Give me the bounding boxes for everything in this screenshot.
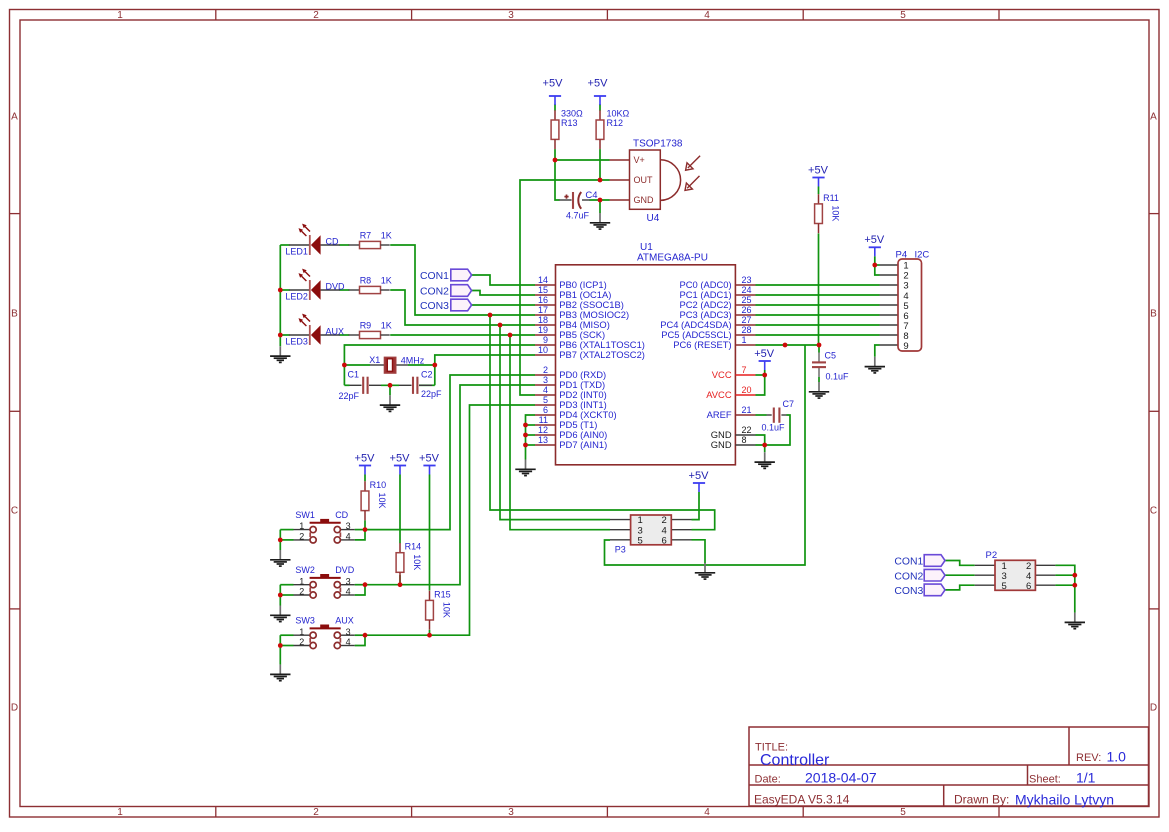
svg-text:2: 2	[299, 637, 304, 647]
svg-text:B: B	[11, 309, 18, 320]
U1 pin 7 VCC	[712, 365, 756, 380]
wire GND pin22	[756, 435, 765, 445]
wire P3 pin6 to ground	[692, 540, 706, 563]
svg-text:2: 2	[543, 365, 548, 375]
svg-text:PB7 (XTAL2TOSC2): PB7 (XTAL2TOSC2)	[559, 349, 645, 360]
svg-text:C: C	[1150, 506, 1157, 517]
wire SW3 pin4 loop	[355, 635, 365, 645]
svg-text:21: 21	[742, 405, 752, 415]
svg-text:CON2: CON2	[420, 287, 449, 298]
LED labels	[285, 236, 345, 346]
crystal pins	[370, 364, 408, 366]
svg-text:2: 2	[313, 10, 319, 21]
wire net DVD: R8 to PB4	[390, 290, 535, 325]
wire V+ node down to C4	[555, 160, 560, 200]
wire SW3 pin2 tie	[280, 645, 293, 647]
frame row ticks left/right	[10, 214, 1160, 609]
svg-text:U1: U1	[640, 242, 653, 253]
U1 pin 9 PB6	[535, 335, 645, 350]
svg-text:4MHz: 4MHz	[401, 356, 425, 366]
svg-text:3: 3	[508, 807, 514, 818]
wire PC2 to P4 pin5	[756, 304, 880, 306]
svg-text:DVD: DVD	[326, 281, 346, 291]
wire P3 pin2 to +5V	[692, 492, 700, 520]
wire R12 to OUT node	[599, 149, 601, 180]
crystal X1 4MHz	[369, 355, 424, 373]
svg-text:2018-04-07: 2018-04-07	[805, 770, 877, 786]
resistor R14	[396, 543, 404, 582]
wire P2 pin4	[1055, 574, 1074, 576]
wire net SW1 to PD0	[365, 375, 535, 530]
wire LED2 anode to R8	[340, 289, 350, 291]
wire SW1 left tie	[280, 529, 293, 531]
ground PD4-PD7	[515, 460, 535, 476]
labels R12	[607, 109, 630, 128]
svg-text:+5V: +5V	[390, 452, 411, 464]
svg-text:8: 8	[742, 435, 747, 445]
wire LED2 cathode	[280, 289, 289, 291]
svg-text:OUT: OUT	[634, 175, 654, 185]
wire LED3 cathode	[280, 334, 289, 336]
svg-text:6: 6	[1026, 581, 1031, 592]
resistor R11	[815, 194, 823, 233]
svg-text:R13: R13	[561, 118, 578, 128]
U1 pin 5 PD3	[535, 395, 607, 410]
wire LED1 cathode	[280, 244, 289, 246]
wire GND node to ground	[599, 200, 601, 213]
C4 pins	[559, 199, 590, 201]
svg-text:0.1uF: 0.1uF	[762, 423, 786, 433]
wire SW1 pin2 tie	[280, 539, 293, 541]
svg-text:23: 23	[742, 275, 752, 285]
svg-text:Sheet:: Sheet:	[1029, 773, 1061, 785]
svg-text:CON1: CON1	[894, 557, 923, 568]
svg-text:1K: 1K	[381, 275, 392, 285]
frame row letters	[11, 112, 1157, 714]
svg-text:15: 15	[538, 285, 548, 295]
svg-text:C4: C4	[585, 190, 597, 201]
resistor R10	[361, 481, 369, 520]
wire PC1 to P4 pin4	[756, 294, 880, 296]
svg-text:R8: R8	[360, 275, 372, 285]
wire CON1 flag to PB0	[472, 275, 535, 285]
wire +5V rail VCC/AVCC	[756, 370, 765, 395]
svg-text:5: 5	[900, 807, 906, 818]
+5V power symbol for P4	[864, 234, 885, 256]
wire PD5 tie	[526, 424, 536, 426]
capacitor C2 22pF	[413, 377, 417, 394]
svg-text:LED3: LED3	[285, 337, 308, 347]
ground P4 pin9	[865, 357, 885, 373]
wire crystal left node	[344, 364, 370, 366]
wire R10 bottom	[364, 520, 366, 529]
wire P2 pin6	[1055, 584, 1074, 586]
svg-text:2: 2	[299, 587, 304, 597]
svg-text:ATMEGA8A-PU: ATMEGA8A-PU	[637, 253, 708, 264]
ground crystal caps	[380, 395, 400, 411]
capacitor C1 22pF	[363, 377, 367, 394]
svg-text:11: 11	[539, 415, 548, 425]
svg-text:28: 28	[742, 325, 752, 335]
svg-text:+5V: +5V	[543, 78, 564, 90]
C1 pins	[350, 384, 382, 386]
wire net CD: R7 to PB3	[390, 245, 535, 315]
wire C1 to C2 mid	[381, 384, 399, 386]
wire crystal right node	[408, 364, 435, 366]
P2 pin stubs	[975, 565, 1056, 585]
svg-text:DVD: DVD	[335, 565, 355, 575]
wire SW2 left tie	[280, 584, 293, 586]
svg-text:14: 14	[538, 275, 548, 285]
wire R11 to RESET node	[818, 233, 820, 345]
svg-text:CON3: CON3	[894, 586, 923, 597]
wire P4 pin1	[875, 264, 880, 266]
resistor R12	[596, 110, 604, 149]
svg-text:TSOP1738: TSOP1738	[633, 138, 683, 149]
svg-text:26: 26	[742, 305, 752, 315]
svg-text:18: 18	[538, 315, 548, 325]
ground C5	[809, 382, 829, 398]
wire crystal mid to ground	[389, 385, 391, 395]
labels R15	[434, 589, 452, 618]
U1 pin 12 PD6	[535, 425, 607, 440]
svg-text:AVCC: AVCC	[706, 389, 732, 400]
svg-text:3: 3	[346, 627, 351, 637]
U1 pin 18 PB4	[535, 315, 610, 330]
svg-text:1K: 1K	[381, 230, 392, 240]
svg-text:X1: X1	[369, 355, 380, 365]
svg-text:4: 4	[346, 532, 351, 542]
svg-text:3: 3	[346, 521, 351, 531]
U1 pin 8 GND	[711, 435, 756, 450]
wire net SW3 to PD3	[365, 405, 535, 635]
svg-text:5: 5	[1002, 581, 1007, 592]
wire SW1 left rail	[279, 530, 281, 550]
U1 pin 25 PC2	[680, 295, 756, 310]
IR receiver U4 TSOP1738	[610, 138, 683, 223]
svg-text:22pF: 22pF	[339, 391, 360, 401]
P3 pin stubs	[610, 520, 692, 540]
wire CON2 flag to PB1	[472, 291, 535, 296]
wire net RESET	[756, 344, 820, 346]
frame column ticks top/bottom	[216, 10, 999, 818]
U1 pin 24 PC1	[680, 285, 756, 300]
U1 pin 26 PC3	[680, 305, 756, 320]
svg-text:REV:: REV:	[1076, 752, 1101, 764]
U1 pin 4 PD2	[535, 385, 607, 400]
wire PC3 to P4 pin6	[756, 314, 880, 316]
svg-text:C5: C5	[825, 351, 837, 361]
svg-text:1: 1	[299, 576, 304, 586]
svg-text:B: B	[1150, 309, 1157, 320]
svg-text:10K: 10K	[412, 554, 422, 570]
svg-text:Drawn By:: Drawn By:	[954, 793, 1009, 807]
wire LED1 anode to R7	[340, 244, 350, 246]
U1 pin 21 AREF	[707, 405, 756, 420]
U1 pin 11 PD5	[535, 415, 597, 430]
capacitor C5 0.1uF	[812, 351, 849, 382]
wire AREF to C7	[756, 414, 767, 416]
wire PD7 tie	[526, 444, 536, 446]
svg-text:4: 4	[704, 10, 710, 21]
svg-text:D: D	[11, 703, 18, 714]
U1 pin 16 PB2	[535, 295, 624, 310]
ground P2	[1065, 613, 1085, 629]
capacitor C4 4.7uF polarized	[564, 190, 597, 221]
svg-text:+5V: +5V	[419, 452, 440, 464]
svg-text:R9: R9	[360, 320, 372, 330]
svg-text:3: 3	[508, 10, 514, 21]
P4 pin stubs	[880, 265, 899, 345]
wire P2 pin2/4/6 ground rail	[1055, 565, 1074, 612]
wire RESET to P3 pin5 riser	[605, 345, 806, 565]
svg-text:PD7 (AIN1): PD7 (AIN1)	[559, 439, 607, 450]
svg-text:1K: 1K	[381, 320, 392, 330]
net flag CON2 at U1	[420, 285, 472, 298]
svg-text:4: 4	[543, 385, 548, 395]
svg-text:5: 5	[900, 10, 906, 21]
svg-text:CON2: CON2	[894, 571, 923, 582]
svg-text:20: 20	[742, 385, 752, 395]
svg-text:25: 25	[742, 295, 752, 305]
IC U1 ATMEGA8A-PU body	[556, 265, 736, 465]
net flag CON3 at U1	[420, 299, 472, 312]
wire SW3 pin3	[355, 634, 365, 636]
svg-text:AREF: AREF	[707, 409, 732, 420]
wire SW1 pin4 loop	[355, 530, 365, 540]
svg-text:Date:: Date:	[755, 773, 781, 785]
svg-text:SW2: SW2	[295, 565, 315, 575]
wire +5V to R11	[818, 187, 820, 195]
labels R10	[370, 480, 388, 509]
+5V power symbol for R14	[390, 452, 411, 474]
wire R13 to V+ node	[554, 149, 556, 160]
connector P3 header	[615, 515, 672, 554]
svg-text:5: 5	[638, 535, 643, 546]
wire +5V to R12	[599, 104, 601, 111]
connector P4 I2C header	[896, 249, 930, 352]
svg-text:C7: C7	[783, 399, 795, 409]
ground SW1	[270, 550, 290, 566]
U1 pin 23 PC0	[680, 275, 756, 290]
svg-text:Controller: Controller	[760, 752, 830, 769]
svg-text:16: 16	[538, 295, 548, 305]
svg-text:P2: P2	[986, 550, 998, 561]
svg-text:3: 3	[346, 576, 351, 586]
svg-text:5: 5	[543, 395, 548, 405]
U1 pin 6 PD4	[535, 405, 617, 420]
U1 pin 19 PB5	[535, 325, 605, 340]
svg-text:LED2: LED2	[285, 292, 308, 302]
wire CON3 to P2 pin5	[945, 585, 975, 590]
wire P4 pin9 to ground	[875, 345, 880, 357]
wire C1 left	[344, 384, 349, 386]
svg-text:6: 6	[662, 535, 667, 546]
svg-text:2: 2	[299, 532, 304, 542]
wire SW1 pin3	[355, 529, 365, 531]
switch SW1 (CD)	[294, 510, 355, 543]
title block	[749, 727, 1149, 807]
ground P3 pin6	[695, 563, 715, 579]
svg-text:1: 1	[117, 807, 123, 818]
wire PD4 tie	[526, 415, 536, 460]
C2 pins	[399, 384, 432, 386]
U1 pin 22 GND	[711, 425, 756, 440]
labels R13	[561, 109, 583, 128]
svg-text:CON1: CON1	[420, 271, 449, 282]
wire C2 right	[419, 384, 435, 386]
wire CON2 to P2 pin3	[945, 574, 975, 576]
wire C4 to GND node	[590, 199, 610, 201]
C7 pins	[767, 414, 787, 416]
svg-text:24: 24	[742, 285, 752, 295]
labels R11	[823, 193, 841, 222]
ground LED rail	[270, 346, 290, 362]
LED LED1 (CD)	[289, 224, 340, 255]
+5V power symbol for R10	[355, 452, 376, 474]
resistor R8 1K	[349, 275, 392, 293]
+5V power symbol for R13	[543, 78, 564, 105]
wire GND pin8	[756, 445, 765, 452]
U1 reference labels	[637, 242, 708, 264]
wire PD6 tie	[526, 434, 536, 436]
svg-text:P3: P3	[615, 544, 626, 554]
svg-text:C: C	[11, 506, 18, 517]
svg-text:V+: V+	[634, 155, 645, 165]
ground SW3	[270, 665, 290, 681]
svg-text:1: 1	[299, 521, 304, 531]
wire CON3 flag to PB2	[472, 304, 535, 306]
svg-text:SW1: SW1	[295, 510, 315, 520]
wire +5V to R14	[399, 475, 401, 544]
labels C1	[339, 370, 360, 401]
svg-text:+5V: +5V	[754, 348, 775, 360]
wire PB5 to P3 pin3	[510, 335, 610, 530]
wire SW2 pin3	[355, 584, 365, 586]
svg-text:10K: 10K	[831, 205, 841, 221]
wire LED cathode rail	[279, 245, 281, 346]
wire C7 to GND net	[765, 415, 790, 445]
svg-text:C1: C1	[348, 370, 360, 380]
resistor R13	[551, 110, 559, 149]
wire R15 bottom	[429, 630, 431, 635]
svg-text:3: 3	[543, 375, 548, 385]
svg-text:4: 4	[346, 587, 351, 597]
wire PC5 to P4 pin8	[756, 334, 880, 336]
U1 pin 14 PB0	[535, 275, 607, 290]
svg-text:GND: GND	[711, 439, 732, 450]
wire SW2 pin2 tie	[280, 594, 293, 596]
svg-text:A: A	[11, 112, 18, 123]
svg-text:R14: R14	[405, 542, 422, 552]
U1 pin 27 PC4	[660, 315, 755, 330]
svg-text:+5V: +5V	[355, 452, 376, 464]
svg-text:1/1: 1/1	[1076, 770, 1096, 786]
U4 IR arrows	[685, 156, 700, 191]
+5V power symbol for VCC	[754, 348, 775, 370]
switch SW2 (DVD)	[294, 565, 355, 598]
svg-text:1: 1	[299, 627, 304, 637]
svg-text:+5V: +5V	[864, 234, 885, 246]
wire SW3 left tie	[280, 634, 293, 636]
svg-text:+5V: +5V	[808, 164, 829, 176]
ground U1 GND pins	[755, 452, 775, 468]
net flag CON3 at P2	[894, 584, 945, 597]
U1 pin 1 PC6	[673, 335, 755, 350]
wire SW2 left rail	[279, 585, 281, 606]
svg-text:1.0: 1.0	[1107, 749, 1127, 765]
svg-text:R10: R10	[370, 480, 387, 490]
wire net AUX: R9 to PB5	[390, 334, 535, 336]
+5V power symbol for R15	[419, 452, 440, 474]
svg-text:R7: R7	[360, 230, 372, 240]
labels R14	[405, 542, 423, 571]
wire +5V to R13	[554, 104, 556, 111]
ground TSOP GND	[590, 213, 610, 229]
net flag CON2 at P2	[894, 569, 945, 582]
svg-text:19: 19	[538, 325, 548, 335]
wire R14 bottom	[399, 575, 401, 585]
wire PB6 to crystal left	[344, 345, 535, 385]
LED LED2 (DVD)	[289, 269, 340, 300]
svg-text:9: 9	[903, 341, 908, 352]
U1 pin 20 AVCC	[706, 385, 755, 400]
+5V power symbol for P3	[689, 470, 710, 492]
wire PB4 to P3 pin1	[500, 325, 610, 520]
svg-text:+5V: +5V	[588, 78, 609, 90]
wire CON1 to P2 pin1	[945, 561, 975, 566]
svg-text:AUX: AUX	[335, 615, 354, 625]
svg-text:1: 1	[117, 10, 123, 21]
resistor R9 1K	[349, 320, 392, 338]
frame column numbers	[117, 10, 906, 818]
wire PB7 to crystal right	[435, 355, 535, 385]
svg-text:P4: P4	[896, 249, 908, 260]
net flag CON1 at U1	[420, 269, 472, 282]
svg-text:7: 7	[742, 365, 747, 375]
+5V power symbol for R12	[588, 78, 609, 105]
labels C2	[421, 370, 442, 400]
svg-text:12: 12	[538, 425, 548, 435]
resistor R7 1K	[349, 230, 392, 248]
capacitor C7 0.1uF	[762, 399, 795, 433]
svg-text:13: 13	[538, 435, 548, 445]
switch SW3 (AUX)	[294, 615, 355, 648]
svg-text:10K: 10K	[377, 493, 387, 509]
wire VCC to +5V	[756, 374, 765, 376]
wire SW3 left rail	[279, 635, 281, 664]
svg-text:+5V: +5V	[689, 470, 710, 482]
svg-text:R12: R12	[607, 118, 624, 128]
wire RESET node to C5	[818, 345, 820, 353]
C5 pins	[818, 353, 820, 378]
svg-text:CON3: CON3	[420, 301, 449, 312]
wire +5V to R10	[364, 475, 366, 482]
svg-text:4.7uF: 4.7uF	[566, 211, 590, 221]
LED LED3 (AUX)	[289, 314, 340, 345]
connector P2 header	[986, 550, 1036, 592]
wire PC0 to P4 pin3	[756, 284, 880, 286]
svg-text:0.1uF: 0.1uF	[826, 372, 850, 382]
wire LED3 anode to R9	[340, 334, 350, 336]
svg-text:9: 9	[543, 335, 548, 345]
svg-text:EasyEDA V5.3.14: EasyEDA V5.3.14	[754, 793, 850, 807]
+5V power symbol for R11	[808, 164, 829, 186]
svg-text:27: 27	[742, 315, 752, 325]
wire +5V to P4 pin1/2	[875, 256, 880, 275]
svg-text:1: 1	[742, 335, 747, 345]
svg-text:A: A	[1150, 112, 1157, 123]
